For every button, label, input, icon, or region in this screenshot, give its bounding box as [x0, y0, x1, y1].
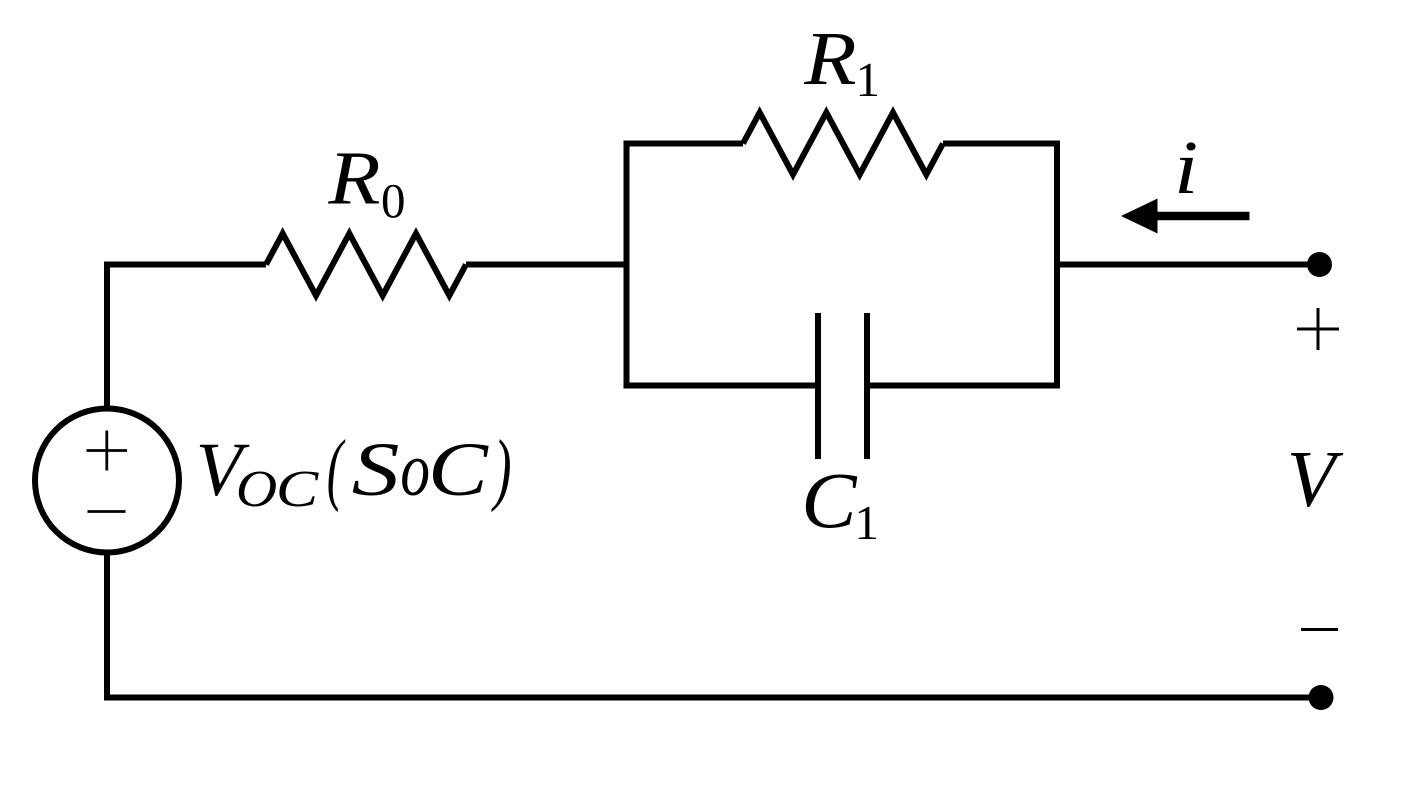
- wire top branch right: [943, 141, 1060, 147]
- svg-text:(: (: [327, 423, 346, 513]
- wire left vertical top: [104, 262, 110, 411]
- resistor R0: [266, 234, 466, 296]
- voltage source VOC circle: [35, 409, 179, 553]
- label VOC(SoC): [196, 423, 512, 518]
- svg-text:R: R: [327, 137, 380, 221]
- wire bottom horizontal: [104, 695, 1321, 701]
- wire R0 to block: [466, 262, 630, 268]
- wire top left horizontal: [104, 262, 266, 268]
- svg-text:O: O: [236, 459, 277, 517]
- resistor R1: [743, 113, 943, 175]
- svg-text:C: C: [428, 427, 489, 511]
- node dot bottom terminal: [1309, 685, 1334, 710]
- minus sign terminal: [1301, 628, 1338, 631]
- wire block to terminal: [1057, 262, 1320, 268]
- plus sign inside source: [87, 431, 128, 471]
- svg-text:S: S: [352, 427, 400, 511]
- current arrow i: [1121, 199, 1250, 234]
- node: block right vertical: [1054, 141, 1060, 389]
- svg-text:0: 0: [381, 173, 406, 228]
- plus sign terminal: [1297, 308, 1339, 350]
- svg-text:o: o: [400, 427, 430, 512]
- svg-text:1: 1: [856, 52, 881, 107]
- svg-text:): ): [491, 423, 512, 513]
- svg-text:C: C: [801, 457, 857, 545]
- minus sign inside source: [88, 510, 126, 513]
- wire bottom branch left: [624, 383, 816, 389]
- svg-text:R: R: [803, 17, 856, 101]
- svg-text:V: V: [1287, 436, 1344, 524]
- wire left vertical bottom: [104, 551, 110, 701]
- wire bottom branch right: [870, 383, 1060, 389]
- svg-text:C: C: [276, 459, 320, 517]
- capacitor C1: [818, 313, 867, 459]
- svg-text:1: 1: [854, 495, 879, 550]
- node: block left vertical: [624, 141, 630, 389]
- svg-text:i: i: [1174, 125, 1198, 209]
- node dot top terminal: [1307, 252, 1332, 277]
- wire top branch left: [624, 141, 744, 147]
